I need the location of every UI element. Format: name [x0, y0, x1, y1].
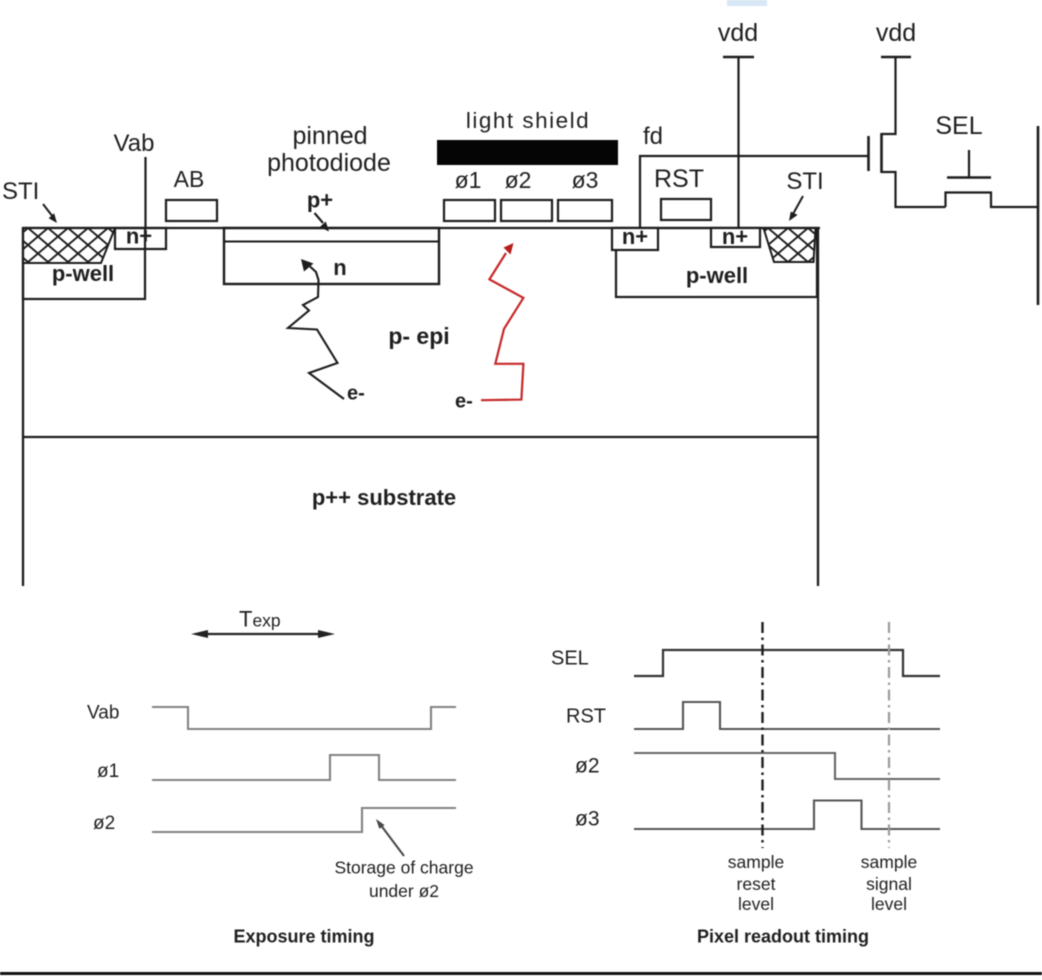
svg-text:level: level — [871, 894, 907, 914]
Texp arrow — [191, 630, 335, 638]
wire Vab contact — [144, 157, 146, 228]
svg-text:photodiode: photodiode — [267, 149, 391, 177]
surface line — [23, 227, 820, 229]
vdd supply 1 — [718, 19, 758, 228]
wire column output line — [1037, 126, 1040, 305]
svg-text:ø3: ø3 — [572, 167, 599, 193]
STI right trench — [764, 228, 816, 262]
wire substrate right edge — [817, 228, 819, 586]
o2 readout waveform — [634, 753, 940, 779]
svg-text:p-well: p-well — [52, 261, 114, 286]
svg-text:signal: signal — [866, 874, 912, 894]
reset gate RST — [661, 199, 711, 220]
svg-text:p-well: p-well — [686, 263, 748, 288]
sample reset level text — [728, 852, 784, 914]
svg-text:ø2: ø2 — [575, 755, 600, 778]
svg-text:ø1: ø1 — [455, 167, 482, 193]
svg-text:SEL: SEL — [551, 648, 589, 670]
svg-text:RST: RST — [654, 165, 704, 193]
o3 readout waveform — [634, 801, 940, 830]
svg-text:Storage of charge: Storage of charge — [334, 858, 473, 878]
svg-text:Pixel readout timing: Pixel readout timing — [697, 927, 869, 947]
red electron zigzag — [455, 243, 523, 413]
source follower transistor — [869, 57, 946, 207]
STI left trench — [23, 228, 115, 263]
svg-text:SEL: SEL — [935, 112, 982, 140]
fd n+ diffusion — [612, 224, 658, 250]
n+ left diffusion — [115, 224, 166, 250]
AB gate — [166, 200, 217, 221]
svg-text:vdd: vdd — [718, 19, 758, 47]
svg-text:Vab: Vab — [114, 130, 155, 157]
transfer gate o2 — [501, 167, 552, 221]
RST waveform — [634, 702, 940, 729]
p+ arrow — [315, 213, 330, 232]
svg-text:p+: p+ — [307, 188, 333, 213]
svg-text:Exposure timing: Exposure timing — [233, 927, 374, 947]
STI left arrow — [43, 204, 57, 223]
storage annotation arrow — [376, 819, 404, 856]
light shield — [437, 140, 618, 165]
sample reset dash-dot line — [761, 622, 763, 848]
wire fd to gate — [640, 156, 868, 228]
svg-text:fd: fd — [643, 123, 663, 150]
o2 waveform — [152, 808, 456, 832]
svg-text:n+: n+ — [722, 224, 748, 249]
wire epi substrate boundary — [23, 436, 818, 438]
transfer gate o3 — [558, 167, 612, 221]
svg-text:ø2: ø2 — [93, 813, 115, 834]
n+ vdd diffusion — [711, 224, 760, 249]
select transistor — [946, 150, 1039, 207]
svg-text:under ø2: under ø2 — [369, 881, 439, 901]
svg-text:reset: reset — [737, 874, 776, 894]
svg-text:ø3: ø3 — [575, 808, 600, 831]
svg-text:sample: sample — [861, 852, 917, 872]
svg-text:p++ substrate: p++ substrate — [312, 485, 456, 510]
svg-text:e-: e- — [455, 391, 473, 413]
svg-text:STI: STI — [2, 178, 39, 205]
svg-text:RST: RST — [566, 706, 606, 728]
svg-text:light shield: light shield — [466, 108, 590, 133]
node pinned photodiode label — [267, 122, 391, 177]
vdd supply 2 — [876, 19, 916, 57]
SEL waveform — [634, 650, 940, 676]
svg-text:STI: STI — [786, 168, 823, 195]
svg-text:ø1: ø1 — [97, 761, 119, 782]
sample signal dash-dot line — [888, 622, 890, 848]
svg-text:p- epi: p- epi — [388, 323, 449, 349]
svg-text:n: n — [333, 255, 346, 280]
svg-text:level: level — [738, 894, 774, 914]
p-well right — [616, 228, 817, 297]
o1 waveform — [152, 755, 456, 780]
wire substrate left edge — [22, 228, 24, 586]
Vab waveform — [152, 707, 456, 729]
svg-text:vdd: vdd — [876, 19, 916, 47]
bottom border line — [0, 972, 1042, 975]
transfer gate o1 — [444, 167, 495, 221]
svg-text:e-: e- — [347, 383, 365, 405]
svg-text:ø2: ø2 — [505, 167, 532, 193]
svg-text:pinned: pinned — [292, 122, 367, 150]
svg-text:AB: AB — [174, 166, 205, 192]
svg-text:sample: sample — [728, 852, 784, 872]
svg-text:Texp: Texp — [239, 607, 281, 632]
sample signal level text — [861, 852, 917, 914]
p-well left — [23, 228, 145, 299]
black electron zigzag — [288, 259, 365, 405]
scan artifact blue mark — [727, 0, 767, 6]
pinned photodiode n region — [224, 228, 439, 284]
STI right arrow — [789, 196, 803, 221]
storage annotation text — [334, 858, 473, 902]
svg-text:Vab: Vab — [87, 703, 119, 724]
svg-text:n+: n+ — [622, 224, 648, 249]
